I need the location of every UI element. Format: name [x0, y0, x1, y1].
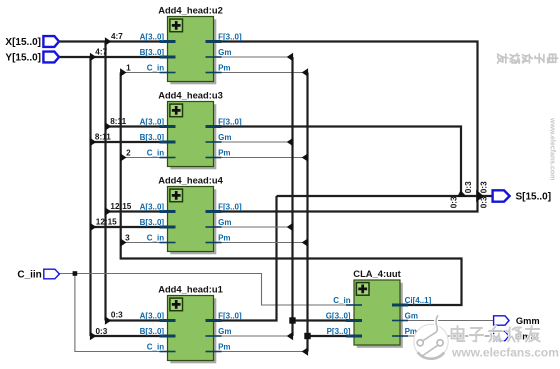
- junction P bus to CLA: [304, 333, 310, 339]
- merge u1.Gm into G bus: [287, 332, 293, 340]
- svg-text:P[3..0]: P[3..0]: [327, 327, 351, 336]
- tap u1.A slice 0:3: [105, 311, 123, 325]
- svg-text:4:7: 4:7: [95, 48, 107, 57]
- output port Gmm: [494, 316, 540, 326]
- wire u1 Gm net: [214, 335, 293, 337]
- junction G bus to CLA: [289, 317, 295, 323]
- merge u2.Pm into P bus: [302, 68, 308, 76]
- tap u4.B slice 12:15: [90, 218, 117, 232]
- wire G[3..0] collector vertical: [291, 57, 293, 336]
- merge u4.Pm into P bus: [302, 238, 308, 246]
- wire u4 F[3..0] to S: [214, 196, 478, 212]
- wire X input bus: [58, 40, 106, 42]
- svg-text:Gm: Gm: [405, 312, 418, 321]
- svg-text:Pm: Pm: [218, 64, 230, 73]
- svg-text:A[3..0]: A[3..0]: [140, 203, 165, 212]
- svg-text:Pm: Pm: [218, 149, 230, 158]
- tap u2.C_in bit 1: [120, 63, 131, 76]
- svg-text:1: 1: [126, 63, 131, 72]
- wire u4 Gm net: [214, 226, 293, 228]
- tap u2.A slice 4:7: [105, 32, 123, 46]
- svg-text:12:15: 12:15: [110, 202, 131, 211]
- wire Y input bus: [58, 56, 91, 58]
- adder block u3: [140, 89, 242, 169]
- wire u3 F[3..0] to S: [214, 127, 462, 197]
- svg-text:B[3..0]: B[3..0]: [140, 327, 165, 336]
- wire S[15..0] bus: [277, 195, 493, 197]
- input port C_iin: [17, 269, 59, 281]
- wire Ci[4..1] feedback bus: [121, 73, 462, 306]
- wire u2 C_in branch: [121, 72, 168, 74]
- svg-text:F[3..0]: F[3..0]: [218, 203, 242, 212]
- svg-text:0:3: 0:3: [479, 196, 488, 208]
- wire u4 B[3..0] branch: [91, 226, 168, 228]
- svg-text:F[3..0]: F[3..0]: [218, 312, 242, 321]
- tap u1.B slice 0:3: [90, 327, 108, 340]
- svg-text:B[3..0]: B[3..0]: [140, 48, 165, 57]
- wire u3 Gm net: [214, 141, 293, 143]
- wire u3 C_in branch: [121, 157, 168, 159]
- svg-text:C_in: C_in: [333, 296, 350, 305]
- svg-text:B[3..0]: B[3..0]: [140, 133, 165, 142]
- svg-text:8:11: 8:11: [110, 117, 126, 126]
- svg-text:Add4_head:u1: Add4_head:u1: [158, 283, 223, 294]
- wire u4 Pm net: [214, 242, 308, 244]
- wire u1 F[3..0] to S: [214, 196, 277, 321]
- input port Y: [5, 52, 59, 64]
- svg-text:12:15: 12:15: [96, 218, 117, 227]
- input port X: [5, 36, 59, 48]
- svg-text:3: 3: [125, 233, 130, 242]
- adder block u2: [140, 4, 242, 84]
- svg-text:F[3..0]: F[3..0]: [218, 118, 242, 127]
- wire u1 B[3..0] branch: [91, 335, 168, 337]
- adder block u4: [140, 174, 242, 254]
- tap u2.B slice 4:7: [90, 48, 108, 62]
- svg-text:www.elecfans.com: www.elecfans.com: [549, 117, 556, 180]
- tap u4.C_in bit 3: [120, 233, 130, 246]
- svg-text:Gm: Gm: [218, 218, 231, 227]
- svg-text:Gmm: Gmm: [516, 316, 540, 326]
- svg-text:C_in: C_in: [147, 64, 164, 73]
- watermark vertical text right edge: [498, 54, 558, 64]
- S merge junction u2.F/u4.F: [476, 190, 483, 202]
- wire CLA Gm output net: [400, 320, 494, 322]
- wire u2 F[3..0] to S: [214, 42, 478, 197]
- tap u3.A slice 8:11: [105, 117, 127, 131]
- adder block u1: [140, 283, 242, 363]
- svg-text:B[3..0]: B[3..0]: [140, 218, 165, 227]
- svg-text:Gm: Gm: [218, 133, 231, 142]
- svg-text:Ci[4..1]: Ci[4..1]: [405, 296, 432, 305]
- junction C_iin split: [73, 271, 78, 276]
- svg-text:0:3: 0:3: [450, 196, 459, 208]
- svg-text:C_iin: C_iin: [17, 270, 41, 281]
- svg-text:X[15..0]: X[15..0]: [5, 37, 41, 48]
- svg-text:Y[15..0]: Y[15..0]: [5, 53, 41, 64]
- merge u3.Gm into G bus: [287, 138, 293, 146]
- tap u3.C_in bit 2: [120, 148, 131, 161]
- svg-text:C_in: C_in: [147, 234, 164, 243]
- svg-text:G[3..0]: G[3..0]: [326, 312, 351, 321]
- svg-text:Pm: Pm: [218, 343, 230, 352]
- carry lookahead block uut: [326, 268, 432, 348]
- svg-text:4:7: 4:7: [111, 32, 123, 41]
- svg-text:C_in: C_in: [147, 149, 164, 158]
- merge u1.Pm into P bus: [302, 347, 308, 355]
- svg-text:Add4_head:u2: Add4_head:u2: [158, 4, 223, 15]
- svg-text:www.elecfans.com: www.elecfans.com: [451, 346, 559, 360]
- svg-text:Gm: Gm: [218, 48, 231, 57]
- svg-text:Add4_head:u3: Add4_head:u3: [158, 89, 223, 100]
- merge u3.Pm into P bus: [302, 153, 308, 161]
- tap u4.A slice 12:15: [105, 202, 132, 216]
- S merge junction u3.F: [457, 190, 467, 196]
- svg-text:Pm: Pm: [218, 234, 230, 243]
- svg-text:Add4_head:u4: Add4_head:u4: [158, 174, 223, 185]
- wire u1 C_in net: [75, 274, 168, 352]
- wire u2 B[3..0] branch: [91, 56, 168, 58]
- wire u2 A[3..0] branch: [106, 40, 168, 42]
- svg-text:2: 2: [126, 148, 131, 157]
- wire u2 Gm net: [214, 56, 293, 58]
- svg-text:0:3: 0:3: [479, 181, 488, 193]
- wire u3 A[3..0] branch: [106, 125, 168, 127]
- svg-text:8:11: 8:11: [95, 133, 111, 142]
- svg-text:A[3..0]: A[3..0]: [140, 312, 165, 321]
- wire X bus vertical: [104, 42, 106, 321]
- svg-text:C_in: C_in: [147, 343, 164, 352]
- svg-text:0:3: 0:3: [96, 327, 108, 336]
- svg-text:0:3: 0:3: [464, 181, 473, 193]
- svg-text:Gm: Gm: [218, 327, 231, 336]
- svg-text:CLA_4:uut: CLA_4:uut: [353, 268, 400, 279]
- wire u1 A[3..0] branch: [106, 319, 168, 321]
- wire CLA Pm output net: [400, 335, 494, 337]
- merge u2.Gm into G bus: [287, 53, 293, 61]
- wire u4 C_in branch: [121, 242, 168, 244]
- svg-text:0:3: 0:3: [111, 311, 123, 320]
- wire u1 Pm net: [214, 351, 308, 353]
- svg-text:F[3..0]: F[3..0]: [218, 33, 242, 42]
- wire Y bus vertical: [89, 57, 91, 336]
- wire P[3..0] collector vertical: [306, 73, 308, 352]
- wire C_iin net: [59, 274, 354, 306]
- svg-text:A[3..0]: A[3..0]: [140, 33, 165, 42]
- output port Pmm: [494, 331, 539, 341]
- watermark logo circle: [414, 315, 448, 359]
- merge u4.Gm into G bus: [287, 223, 293, 231]
- output port S: [493, 190, 551, 202]
- svg-text:A[3..0]: A[3..0]: [140, 118, 165, 127]
- wire u3 Pm net: [214, 157, 308, 159]
- wire u3 B[3..0] branch: [91, 141, 168, 143]
- wire P[3..0] into CLA: [308, 335, 355, 337]
- wire u2 Pm net: [214, 72, 308, 74]
- wire u4 A[3..0] branch: [106, 210, 168, 212]
- svg-text:S[15..0]: S[15..0]: [516, 192, 552, 203]
- tap u3.B slice 8:11: [90, 133, 111, 147]
- watermark text dian zi fa shao you: [452, 326, 540, 342]
- wire G[3..0] into CLA: [293, 319, 355, 321]
